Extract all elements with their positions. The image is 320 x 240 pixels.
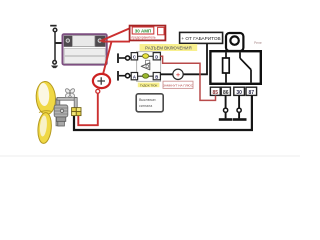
terminal post right [98,39,101,42]
fan clover icon [65,88,76,98]
row line A-B [138,75,154,77]
terminal block right [95,36,106,47]
horn button connector block [131,52,160,82]
yellow label gudok [138,83,160,88]
svg-text:87: 87 [249,90,255,96]
pin B [153,73,160,80]
plus mark [97,77,105,85]
fuse element square [158,27,164,34]
svg-text:сигнала: сигнала [139,104,152,108]
bullet connector 86 [224,108,228,112]
horn stem [56,99,60,126]
bullet connector under plus [96,89,100,93]
battery band 1 [64,48,105,55]
relay mount hole [230,36,238,44]
ground bar 86 [219,118,233,121]
horn lower lobe [37,112,53,144]
horn upper lobe [35,81,56,115]
ground chain left of battery [50,25,67,68]
row line C-D [138,55,154,57]
left pin header bottom (to A) [117,71,119,81]
svg-text:+: + [176,70,180,79]
contact oval bottom [143,74,149,79]
battery center cap [72,36,94,47]
bracket foot [58,121,65,126]
red wire plus to horn connector [78,93,98,125]
bullet connector 30 [237,108,241,112]
relay terminal 85 [210,87,256,96]
relay terminal 86 [221,87,230,95]
svg-text:B: B [155,74,158,79]
horn waist crease [39,111,52,113]
red wire battery+ to fuse [101,28,130,75]
relay coil [223,58,230,73]
wire B to parking feed [160,44,207,75]
horn (klaxon) [35,81,77,144]
svg-text:C: C [133,54,136,59]
arrowhead at battery negative [62,41,67,45]
red wire battery+ to fuse corner [103,41,130,43]
relay mount tab [226,33,243,51]
relay switch blade [240,58,251,69]
svg-text:D: D [155,54,158,59]
relay U1 [210,33,260,84]
wire 30 to ground [238,95,240,118]
pin A [131,73,137,80]
svg-text:85: 85 [213,90,219,96]
ground bar 30 [233,118,247,121]
horn connector (checkered) [72,108,81,116]
svg-text:предохранитель: предохранитель [131,36,155,40]
fuse label box 30 AMP [130,26,166,41]
svg-text:Выключат.: Выключат. [139,98,156,102]
svg-text:РАЗЪЕМ ВКЛЮЧЕНИЯ: РАЗЪЕМ ВКЛЮЧЕНИЯ [145,45,191,50]
wire 86 to ground [219,95,247,120]
battery [63,34,107,64]
relay coil stubs [225,52,227,82]
caption box horn switch [136,94,163,112]
relay terminal 87 [246,87,257,95]
horn lower highlight [39,115,48,137]
wire to C [119,57,131,59]
bullet connector C [126,56,130,60]
red wire down to horn plus [103,42,112,75]
contact oval top [143,54,149,59]
svg-text:86: 86 [223,90,229,96]
svg-text:A: A [133,74,136,79]
bullet connector A [126,74,130,78]
housing bolt [60,109,63,112]
relay body [210,51,260,84]
yellow label razyem [140,44,198,51]
svg-text:ГУДОК ТЮК: ГУДОК ТЮК [140,83,158,87]
horn icon small box [146,60,150,64]
faint divider line [0,156,300,157]
horn magnet housing [54,105,68,117]
svg-text:ЗАМКНУТ НА ПЛЮС: ЗАМКНУТ НА ПЛЮС [163,83,194,87]
terminal post left [66,39,69,42]
parking lights feed box [180,32,223,43]
svg-text:30 АМП: 30 АМП [135,28,152,33]
wire to battery negative [55,42,64,44]
bullet connector bottom [53,61,57,65]
plus test point circle [173,69,183,79]
wire D to relay 85 [160,56,215,100]
battery band 2 [64,57,105,64]
svg-text:+ ОТ ГАБАРИТОВ: + ОТ ГАБАРИТОВ [181,36,220,41]
horn icon curl [146,65,149,68]
fuse inner box [132,27,154,34]
wire to A [119,75,131,77]
chassis bar top [50,25,56,27]
pin D [153,53,160,60]
horn upper highlight [38,83,50,107]
wire relay 87 to horn (bottom run) [74,95,252,130]
wire [54,32,56,61]
pin C [131,53,137,60]
housing foot [56,117,65,121]
svg-text:Реле: Реле [254,41,262,45]
test point caption box [163,81,193,88]
horn plus ellipse [93,74,110,88]
horn icon trumpet [141,63,150,70]
horn pipe horizontal [57,97,76,100]
left pin header top (to C) [117,53,131,80]
bullet connector top [53,28,57,32]
svg-text:30: 30 [236,90,242,96]
terminal block left [64,36,73,47]
relay switch contact top [239,52,241,58]
horn pipe elbow [74,98,77,108]
relay switch contact bottom [250,70,252,83]
housing lines [54,108,67,114]
ground [51,66,58,69]
arrowhead at battery positive [99,39,105,43]
relay terminal 30 [234,87,245,95]
